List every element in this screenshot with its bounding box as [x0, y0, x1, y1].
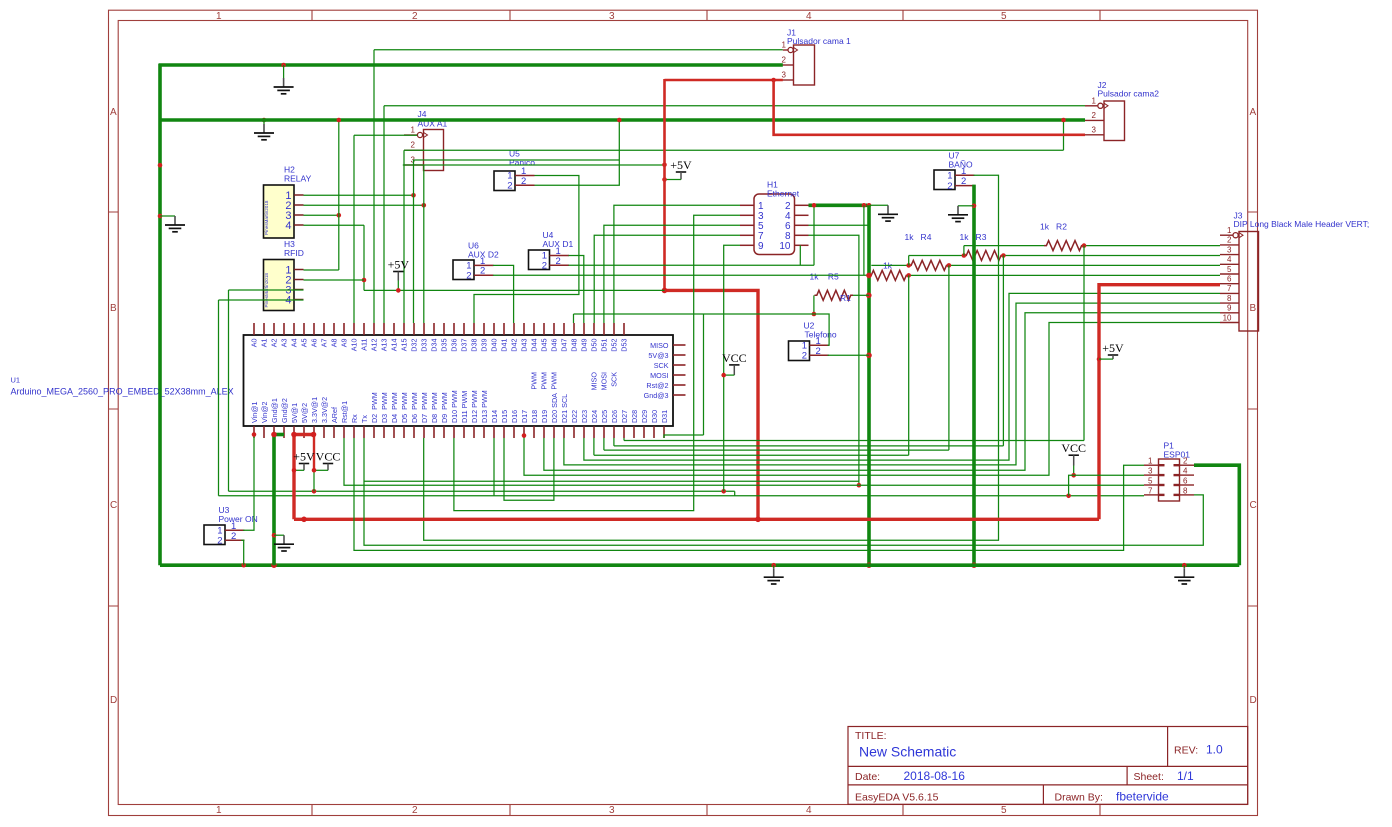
- svg-text:1k R5: 1k R5: [810, 272, 840, 282]
- svg-text:7: 7: [1227, 284, 1232, 293]
- junction +5V flag tap: [662, 177, 667, 182]
- svg-text:1/1: 1/1: [1177, 769, 1194, 783]
- svg-text:SCK: SCK: [610, 372, 619, 387]
- svg-text:AUX D2: AUX D2: [468, 250, 499, 260]
- resistor R5 body: [869, 270, 909, 280]
- junction D17 stub: [522, 433, 527, 438]
- wire R1 left lead down to row314: [813, 295, 815, 314]
- junction red row dot: [301, 517, 307, 523]
- svg-text:D31: D31: [660, 410, 669, 423]
- wire J3 pin10 net to D17: [524, 323, 1220, 476]
- svg-text:BAÑO: BAÑO: [949, 160, 973, 170]
- svg-text:2: 2: [231, 531, 236, 542]
- svg-text:PWM: PWM: [530, 372, 539, 390]
- svg-text:2: 2: [1092, 111, 1097, 120]
- svg-text:D53: D53: [620, 338, 629, 351]
- svg-text:Panico: Panico: [509, 158, 535, 168]
- connector U2 Telefono: [789, 336, 830, 362]
- svg-text:1k R4: 1k R4: [905, 232, 932, 242]
- wire row y=160 to U5.2 column: [414, 159, 620, 161]
- junction VCC P1.3: [1071, 473, 1076, 478]
- svg-text:D10 PWM: D10 PWM: [450, 390, 459, 423]
- svg-text:MISO: MISO: [650, 341, 669, 350]
- svg-text:REV:: REV:: [1174, 745, 1198, 757]
- svg-text:A14: A14: [390, 339, 399, 352]
- junction VCC stem: [312, 468, 317, 473]
- svg-text:D21 SCL: D21 SCL: [560, 394, 569, 423]
- junction +5V J4 row: [662, 163, 667, 168]
- wire Rst@1 to P1.5 row485: [344, 438, 1144, 485]
- svg-text:Drawn By:: Drawn By:: [1055, 792, 1103, 804]
- svg-text:D37: D37: [460, 338, 469, 351]
- svg-text:2: 2: [412, 805, 418, 816]
- wire J4 pin3 +5V row y=165: [403, 164, 665, 166]
- svg-text:3: 3: [782, 71, 787, 80]
- power flag VCC at P1: [1061, 441, 1086, 465]
- svg-text:D23: D23: [580, 410, 589, 423]
- junction bus1 gnd tap: [281, 63, 286, 68]
- svg-text:2: 2: [411, 141, 416, 150]
- svg-text:3: 3: [1227, 245, 1232, 254]
- svg-text:D26: D26: [610, 410, 619, 423]
- wire H3 pin4 net row y=495.8 to P1 pin7: [219, 299, 304, 301]
- wire red 5V row y=519.3: [294, 518, 1099, 521]
- svg-text:D29: D29: [640, 410, 649, 423]
- junction gnd5 tap: [272, 533, 277, 538]
- svg-text:8: 8: [1227, 294, 1232, 303]
- junction bus2 x=1063.5: [1061, 118, 1066, 123]
- svg-text:D12 PWM: D12 PWM: [470, 390, 479, 423]
- ground G2 on bus2: [254, 120, 274, 140]
- wire H2 pin2 to D33 column: [304, 204, 424, 206]
- junction bus gnd6: [771, 563, 776, 568]
- wire row314 D48-D31-U2.1: [574, 313, 814, 315]
- svg-text:3: 3: [1092, 125, 1097, 134]
- junction R4L: [906, 263, 911, 268]
- svg-text:D30: D30: [650, 410, 659, 423]
- wire R4R column to row450: [948, 265, 950, 450]
- svg-text:D41: D41: [500, 338, 509, 351]
- svg-text:4: 4: [806, 805, 812, 816]
- junction left bus gnd tap: [158, 214, 163, 219]
- junction H1.2 a: [812, 203, 817, 208]
- junction R1/U2.1: [812, 312, 817, 317]
- wire VCC jog to row495.8: [734, 491, 736, 496]
- wire bus2 horizontal y=120 to J2 pin2: [159, 118, 1086, 122]
- svg-text:A: A: [110, 107, 117, 118]
- svg-text:D45: D45: [540, 338, 549, 351]
- wire red 5V@1 column: [292, 434, 295, 519]
- wire gnd jog left bus: [160, 215, 175, 217]
- junction x869 bus: [866, 562, 872, 568]
- connector U6 AUX D2: [453, 256, 494, 282]
- svg-text:D17: D17: [520, 410, 529, 423]
- svg-text:VCC: VCC: [1061, 441, 1086, 455]
- svg-text:10: 10: [1223, 313, 1232, 322]
- svg-text:MISO: MISO: [590, 372, 599, 391]
- svg-text:D11 PWM: D11 PWM: [460, 391, 469, 423]
- wire J2 pin1 net: A13 column and row y=105.8: [384, 105, 1085, 107]
- svg-text:D35: D35: [440, 338, 449, 351]
- junction 5V@1: [291, 432, 297, 438]
- wire J4 pin2 / A15 / bus2 net: [403, 150, 405, 323]
- wire thick gnd bridge: [273, 433, 284, 437]
- junction red x758: [755, 517, 761, 523]
- svg-text:ARef: ARef: [330, 407, 339, 423]
- ground G8 left: [165, 216, 185, 232]
- wire U2 pin2 to x869: [828, 354, 869, 356]
- svg-text:1: 1: [216, 11, 222, 22]
- svg-text:Gnd@3: Gnd@3: [644, 391, 669, 400]
- svg-text:D4 PWM: D4 PWM: [390, 392, 399, 423]
- svg-text:2: 2: [782, 56, 787, 65]
- wire H1.2 to ground G3: [870, 204, 888, 206]
- svg-text:Gnd@1: Gnd@1: [270, 398, 279, 423]
- resistor R4 body: [909, 260, 949, 270]
- junction bus U3.2: [241, 563, 246, 568]
- wire U3 pin2 to bus: [241, 540, 244, 565]
- junction x869 R5L: [866, 273, 872, 279]
- connector J1 Pulsador cama 1: [794, 45, 815, 85]
- svg-text:PWM: PWM: [550, 372, 559, 390]
- svg-text:D40: D40: [490, 338, 499, 351]
- wire red +5V horizontal y=290.4 and down x=758: [665, 290, 759, 519]
- svg-text:2: 2: [802, 351, 807, 362]
- svg-text:Arduino_MEGA_2560_PRO_EMBED_52: Arduino_MEGA_2560_PRO_EMBED_52X38mm_ALEX: [11, 387, 234, 397]
- svg-text:10: 10: [779, 241, 791, 252]
- svg-text:7: 7: [1148, 486, 1153, 495]
- svg-text:D6 PWM: D6 PWM: [410, 392, 419, 423]
- junction J1 pin3 branch: [771, 78, 776, 83]
- svg-text:D38: D38: [470, 338, 479, 351]
- wire R4 right to J3 pin4: [949, 264, 1220, 266]
- svg-text:D27: D27: [620, 410, 629, 423]
- wire VCC green from 3.3V col to row491: [313, 470, 315, 491]
- power flag VCC mid: [722, 351, 747, 375]
- svg-text:4: 4: [285, 220, 291, 232]
- connector J2 Pulsador cama2: [1104, 101, 1125, 141]
- wire VCC jog to P1.7 row: [1069, 475, 1074, 496]
- svg-text:VCC: VCC: [722, 351, 747, 365]
- connector U4 AUX D1: [529, 246, 570, 272]
- wire D14 column to row495.8: [493, 438, 495, 496]
- wire red 3.3V column: [313, 434, 315, 470]
- junction Gnd@1: [271, 432, 277, 438]
- wire U7 pin1 to D7 via row540.3: [424, 175, 999, 540]
- svg-text:1: 1: [1092, 96, 1097, 105]
- svg-text:A: A: [1250, 107, 1257, 118]
- wire J3 pin7 net to D23: [584, 293, 1220, 460]
- svg-text:5: 5: [1001, 11, 1007, 22]
- bottom ticks: [312, 805, 1100, 816]
- svg-text:A3: A3: [280, 339, 289, 348]
- svg-text:2: 2: [961, 176, 966, 187]
- wire H1 pin2 thick gnd to x869: [809, 204, 870, 208]
- svg-text:2018-08-16: 2018-08-16: [904, 769, 966, 783]
- wire H1 pin3 to D10 via row510.6: [454, 215, 740, 510]
- svg-text:D50: D50: [590, 338, 599, 351]
- wire bus1 horizontal y=65 to J1 pin2: [159, 63, 783, 67]
- junction Vin@1: [252, 432, 257, 437]
- svg-text:9: 9: [1227, 304, 1232, 313]
- svg-text:D43: D43: [520, 338, 529, 351]
- wire U2 pin1 jog: [814, 314, 829, 345]
- svg-text:EasyEDA V5.6.15: EasyEDA V5.6.15: [855, 792, 939, 804]
- svg-text:Pulsador cama2: Pulsador cama2: [1098, 89, 1160, 99]
- junction R5R: [906, 273, 911, 278]
- junction left bus y=165: [158, 163, 163, 168]
- resistor R3 body: [964, 251, 1003, 261]
- svg-text:PWM: PWM: [540, 372, 549, 390]
- svg-text:2: 2: [947, 181, 952, 192]
- junction P1.7 VCC tap: [1066, 494, 1071, 499]
- svg-text:D48: D48: [570, 338, 579, 351]
- svg-text:Tx: Tx: [360, 415, 369, 423]
- wire R2R column to row440.5: [1083, 246, 1085, 441]
- junction R2R: [1082, 243, 1087, 248]
- svg-text:B: B: [1250, 303, 1257, 314]
- svg-text:A4: A4: [290, 339, 299, 348]
- svg-text:A7: A7: [320, 339, 329, 348]
- ground G4: [948, 206, 968, 222]
- wire R3 left row255 from R4L: [909, 255, 964, 257]
- svg-text:1: 1: [411, 126, 416, 135]
- ground G6 on bus: [764, 565, 784, 584]
- connector U7 BANO: [934, 166, 975, 192]
- svg-text:D42: D42: [510, 338, 519, 351]
- svg-text:D24: D24: [590, 410, 599, 423]
- svg-text:Gnd@2: Gnd@2: [280, 398, 289, 423]
- svg-text:PinesMartin2018: PinesMartin2018: [264, 200, 269, 235]
- svg-text:5V@3: 5V@3: [648, 351, 668, 360]
- svg-text:Date:: Date:: [855, 771, 880, 783]
- svg-text:6: 6: [1183, 477, 1188, 486]
- svg-text:4: 4: [1227, 255, 1232, 264]
- wire H2 pin1 to D32 column: [304, 194, 414, 196]
- junction U7 gnd tap: [972, 204, 977, 209]
- wire +5V red net: J1.3 J2.3 column x=664.5: [663, 79, 666, 290]
- connector P1 ESP01: [1144, 457, 1194, 501]
- svg-text:Pulsador cama 1: Pulsador cama 1: [787, 36, 851, 46]
- svg-text:RFID: RFID: [284, 248, 304, 258]
- junction bus2 U5.2: [617, 118, 622, 123]
- wire J1 pin1 net: A12 column and row y=50: [374, 49, 783, 51]
- svg-text:4: 4: [806, 11, 812, 22]
- svg-text:Rst@1: Rst@1: [340, 401, 349, 423]
- svg-text:+5V: +5V: [670, 158, 692, 172]
- wire R4 left 1k row: [871, 264, 908, 266]
- wire thick gnd column x=274: [272, 434, 276, 566]
- junction VCC flag tap: [721, 373, 726, 378]
- svg-text:2: 2: [466, 270, 471, 281]
- wire U5 pin2 to bus2: [535, 120, 620, 185]
- svg-text:3: 3: [1148, 467, 1153, 476]
- wire R2 left row from R3L: [964, 245, 1044, 247]
- wire U6 pin2 row y=275.3 to R5 left: [493, 274, 869, 276]
- svg-text:A1: A1: [260, 339, 269, 348]
- junction H3.2: [362, 278, 367, 283]
- svg-text:D44: D44: [530, 338, 539, 351]
- svg-text:2: 2: [556, 256, 561, 267]
- svg-text:B: B: [110, 303, 117, 314]
- svg-text:1.0: 1.0: [1206, 743, 1223, 757]
- wire bottom bus thick y=565.2: [160, 563, 1239, 567]
- svg-text:2: 2: [542, 261, 547, 272]
- svg-text:1: 1: [782, 41, 787, 50]
- svg-text:fbetervide: fbetervide: [1116, 790, 1169, 804]
- wire H1 pin7 to D50: [594, 235, 740, 323]
- wire U6 pin1 to D42: [493, 265, 514, 323]
- wire red branch to J2 pin3: [774, 80, 1085, 135]
- svg-text:1k R2: 1k R2: [1040, 222, 1067, 232]
- wire J4 pin1 net: A10 column: [354, 134, 417, 136]
- ground G1 on bus1: [274, 65, 294, 94]
- power flag VCC at U1: [314, 450, 340, 471]
- svg-text:MOSI: MOSI: [650, 371, 668, 380]
- svg-text:+5V: +5V: [1102, 341, 1124, 355]
- svg-text:A6: A6: [310, 339, 319, 348]
- junction x869 R1: [866, 293, 872, 299]
- wire Rx to P1.1 row550.4: [354, 438, 1144, 550]
- wire R3 right to J3 pin3: [1003, 255, 1220, 257]
- svg-text:D2 PWM: D2 PWM: [370, 392, 379, 423]
- svg-text:D39: D39: [480, 338, 489, 351]
- wire R4L up to R3 row: [908, 256, 910, 266]
- svg-text:A0: A0: [250, 339, 259, 348]
- wire R3R column to row446: [1002, 256, 1004, 446]
- svg-text:+5V: +5V: [293, 450, 315, 464]
- wire U5 pin1 to D38 via row294.5: [474, 176, 579, 324]
- svg-text:D: D: [1250, 695, 1257, 706]
- wire R5 right to J3 pin5 and column down: [909, 274, 1220, 276]
- wire to ground G4: [958, 205, 974, 207]
- svg-text:A2: A2: [270, 339, 279, 348]
- connector U5 Panico: [494, 166, 535, 192]
- junction x869 U2.2: [866, 353, 872, 359]
- svg-text:A11: A11: [360, 339, 369, 351]
- wire P1.3 row: [1074, 474, 1144, 476]
- wire H1 pin8 to P1.5 row column x=858.9: [809, 235, 859, 485]
- wire R1 right lead to x869: [853, 294, 869, 296]
- svg-text:J4: J4: [418, 109, 427, 119]
- junction R3L: [962, 253, 967, 258]
- wire row481 Tx to H1.8 col: [364, 480, 859, 482]
- svg-text:D5 PWM: D5 PWM: [400, 392, 409, 423]
- svg-text:5: 5: [1227, 265, 1232, 274]
- wire H2 pin3 / H3 pin1 column x=338.8: [304, 214, 339, 216]
- svg-text:A9: A9: [340, 339, 349, 348]
- svg-text:5: 5: [1001, 805, 1007, 816]
- svg-text:D33: D33: [420, 338, 429, 351]
- wire R5R column to row455: [908, 275, 910, 455]
- wire U7 pin2 thick gnd column x=974: [972, 185, 976, 566]
- svg-text:AUX D1: AUX D1: [543, 239, 574, 249]
- right ticks: [1248, 212, 1258, 606]
- svg-text:Power ON: Power ON: [219, 514, 258, 524]
- svg-text:3.3V@2: 3.3V@2: [320, 397, 329, 423]
- svg-text:1: 1: [216, 805, 222, 816]
- svg-text:Telefono: Telefono: [805, 330, 837, 340]
- junction +5V stem: [292, 468, 297, 473]
- svg-text:D52: D52: [610, 338, 619, 351]
- wire J3 pin9 net to D19: [544, 313, 1220, 471]
- junction red x664 y290: [662, 288, 668, 294]
- svg-text:A8: A8: [330, 339, 339, 348]
- svg-text:U1: U1: [11, 376, 21, 385]
- svg-text:D7 PWM: D7 PWM: [420, 392, 429, 423]
- junction bus2 gnd tap: [262, 118, 267, 123]
- svg-text:D46: D46: [550, 338, 559, 351]
- svg-text:2: 2: [521, 176, 526, 187]
- wire column x=863.9 down to row275: [863, 205, 865, 275]
- wire left bus vertical (net cama/gnd): [158, 64, 162, 565]
- svg-text:D13 PWM: D13 PWM: [480, 390, 489, 423]
- wire red bridge 5V pins: [293, 433, 314, 436]
- power flag +5V above row290: [388, 258, 410, 281]
- junction VCC H1.9 col: [721, 489, 726, 494]
- svg-text:2: 2: [816, 346, 821, 357]
- svg-text:C: C: [1250, 500, 1257, 511]
- junction H2.1/D32: [411, 193, 416, 198]
- svg-text:Vin@2: Vin@2: [260, 401, 269, 423]
- wire H2 pin4 / H3 pin2 column x=364 to +5V row: [304, 224, 365, 226]
- junction VCC 3.3V col: [312, 489, 317, 494]
- wire H1 pin6 stub row: [809, 224, 870, 226]
- svg-text:8: 8: [1183, 486, 1188, 495]
- wire P1 pin2 thick to bus: [1194, 465, 1239, 565]
- junction R3R: [1001, 253, 1006, 258]
- junction H2.2/D33: [422, 203, 427, 208]
- svg-text:D25: D25: [600, 410, 609, 423]
- svg-text:2: 2: [217, 536, 222, 547]
- svg-text:C: C: [110, 500, 117, 511]
- junction x974 bus: [971, 562, 977, 568]
- connector J4 AUX A1: [424, 130, 444, 171]
- svg-text:6: 6: [1227, 275, 1232, 284]
- ground G3: [878, 205, 898, 221]
- junction R4R: [947, 263, 952, 268]
- svg-text:D32: D32: [410, 338, 419, 351]
- wire +5V row green y=290.4: [364, 289, 665, 291]
- wire thick gnd column x=869: [867, 205, 871, 565]
- junction R5L: [867, 273, 872, 278]
- svg-text:R1: R1: [840, 293, 851, 303]
- svg-text:5V@1: 5V@1: [290, 403, 299, 423]
- junction H1.2 c: [867, 203, 872, 208]
- svg-text:2: 2: [1227, 236, 1232, 245]
- svg-text:Rx: Rx: [350, 414, 359, 423]
- svg-text:D49: D49: [580, 338, 589, 351]
- wire U4 pin1 to D49: [569, 256, 584, 324]
- svg-text:2: 2: [507, 181, 512, 192]
- junction H1.8 row485: [857, 483, 862, 488]
- top ticks: [312, 10, 1100, 20]
- svg-text:4: 4: [1183, 467, 1188, 476]
- svg-text:5: 5: [1148, 477, 1153, 486]
- svg-text:ESP01: ESP01: [1164, 450, 1191, 460]
- svg-text:D22: D22: [570, 410, 579, 423]
- svg-text:MOSI: MOSI: [600, 372, 609, 390]
- svg-text:VCC: VCC: [316, 450, 341, 464]
- svg-text:D3 PWM: D3 PWM: [380, 392, 389, 423]
- svg-text:D: D: [110, 695, 117, 706]
- svg-text:D9 PWM: D9 PWM: [440, 392, 449, 423]
- svg-text:SCK: SCK: [654, 361, 669, 370]
- connector H1 Ethernet: [740, 194, 809, 255]
- ground G5: [274, 535, 294, 551]
- svg-text:A13: A13: [380, 339, 389, 352]
- svg-text:A10: A10: [350, 339, 359, 352]
